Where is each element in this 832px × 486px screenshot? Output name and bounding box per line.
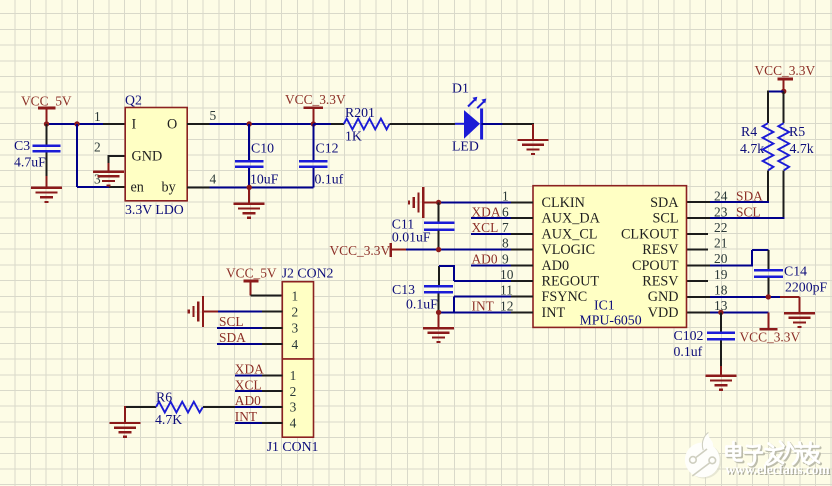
LED D1 — [455, 97, 486, 140]
svg-text:2200pF: 2200pF — [785, 280, 827, 295]
svg-text:4.7K: 4.7K — [155, 412, 182, 427]
value label C102 0.1uf — [674, 328, 704, 359]
svg-text:3: 3 — [290, 400, 297, 415]
capacitor C11 — [424, 203, 455, 250]
value label C14 2200pF — [784, 264, 827, 295]
svg-text:1K: 1K — [345, 129, 362, 144]
power port VCC_5V — [21, 94, 72, 125]
ground below C10 — [234, 187, 265, 217]
svg-text:R6: R6 — [156, 389, 172, 404]
ground right of C14 — [784, 313, 815, 327]
svg-text:1: 1 — [502, 189, 509, 204]
wire LED to ground — [482, 124, 534, 140]
power port VCC_3.3V top right — [755, 63, 816, 91]
ground below C13 — [423, 312, 454, 342]
wire AUX_CL pin7 / label XCL — [471, 220, 533, 235]
node junction C13 bottom — [436, 310, 441, 315]
svg-text:Q2: Q2 — [125, 93, 142, 108]
svg-text:SCL: SCL — [652, 211, 678, 227]
wire VLOGIC pin8 — [406, 249, 533, 251]
wire en branch down to Q2 pin3 — [77, 124, 125, 187]
resistor R201 — [313, 119, 455, 130]
ground right of D1 — [518, 140, 549, 154]
wire J2 pin1 — [251, 295, 283, 297]
wire J1 pin2 / label XCL — [235, 377, 282, 392]
wire INT pin12 / label INT — [439, 299, 533, 314]
svg-text:0.1uf: 0.1uf — [674, 344, 703, 359]
svg-text:J1 CON1: J1 CON1 — [267, 439, 319, 454]
wire R4 branch — [768, 90, 784, 123]
value label C12 0.1uf — [315, 141, 344, 187]
svg-text:R201: R201 — [345, 105, 375, 120]
svg-text:R4: R4 — [741, 124, 757, 139]
wire AUX_DA pin6 / label XDA — [471, 205, 533, 220]
svg-text:24: 24 — [714, 189, 728, 204]
svg-text:7: 7 — [502, 220, 509, 235]
svg-text:IC1: IC1 — [594, 298, 615, 313]
svg-text:21: 21 — [714, 236, 727, 251]
pin lead 21 — [687, 249, 708, 251]
svg-text:5: 5 — [210, 108, 217, 123]
svg-text:3: 3 — [94, 172, 101, 187]
node junction at en branch — [74, 121, 79, 126]
svg-text:11: 11 — [500, 283, 513, 298]
designator R5 4.7k — [789, 124, 814, 156]
svg-text:VCC_3.3V: VCC_3.3V — [755, 63, 816, 78]
svg-text:23: 23 — [714, 205, 728, 220]
svg-text:19: 19 — [714, 267, 728, 282]
node junction at R4/R5 top — [781, 89, 786, 94]
svg-text:VCC_3.3V: VCC_3.3V — [740, 330, 801, 345]
wire J2 pin4 / label SDA — [217, 330, 282, 345]
wire SCL net pin23 — [687, 217, 785, 219]
node junction at C10 top — [247, 121, 252, 126]
svg-text:REGOUT: REGOUT — [542, 274, 600, 290]
pin lead Q2 GND pin 2 — [108, 155, 125, 171]
svg-text:2: 2 — [290, 384, 297, 399]
svg-text:AD0: AD0 — [235, 393, 261, 408]
svg-text:VDD: VDD — [648, 305, 679, 321]
watermark logo elecfans — [685, 432, 722, 478]
svg-text:VCC_3.3V: VCC_3.3V — [285, 92, 346, 107]
capacitor C10 — [235, 124, 264, 187]
svg-text:www.elecfans.com: www.elecfans.com — [726, 462, 830, 477]
node junction at C10 bottom — [247, 185, 252, 190]
wire J2 pin2 — [218, 311, 282, 313]
pin lead 19 — [687, 280, 708, 282]
svg-text:10uF: 10uF — [250, 172, 279, 187]
svg-text:LED: LED — [452, 139, 479, 154]
node junction C102 top — [718, 310, 723, 315]
value label C13 0.1uF — [392, 282, 438, 312]
pin numbers J2 1-4 — [292, 288, 299, 352]
svg-text:1: 1 — [290, 368, 297, 383]
svg-text:2: 2 — [94, 140, 101, 155]
svg-text:C14: C14 — [784, 264, 807, 279]
capacitor C3 — [32, 124, 60, 176]
power port VCC_5V at J2 — [226, 266, 277, 296]
ground below C3 — [31, 176, 62, 202]
wire J1 pin1 / label XDA — [235, 362, 282, 377]
wire FSYNC pin11 link — [454, 297, 533, 313]
svg-text:R5: R5 — [789, 124, 805, 139]
wire VDD pin13 — [687, 311, 769, 313]
svg-text:0.1uF: 0.1uF — [406, 297, 438, 312]
node junction C11 top — [436, 200, 441, 205]
node junction at C3 top — [44, 121, 49, 126]
svg-text:4.7uF: 4.7uF — [14, 155, 46, 170]
svg-text:SCL: SCL — [736, 205, 761, 220]
svg-text:0.1uf: 0.1uf — [315, 172, 344, 187]
svg-text:12: 12 — [500, 299, 513, 314]
pin numbers J1 1-4 — [290, 368, 297, 430]
svg-text:INT: INT — [472, 299, 494, 314]
wire Q2 pin4 bottom rail — [187, 186, 313, 188]
IC U1 IC1 MPU-6050 body — [533, 186, 687, 328]
svg-text:2: 2 — [292, 305, 299, 320]
wire GND pin18 — [687, 297, 799, 313]
svg-text:J2 CON2: J2 CON2 — [282, 266, 334, 281]
value label C11 0.01uF — [392, 217, 431, 245]
svg-text:C12: C12 — [316, 141, 339, 156]
svg-text:D1: D1 — [452, 81, 469, 96]
designator R6 4.7K — [155, 389, 182, 427]
svg-text:VCC_5V: VCC_5V — [226, 266, 277, 281]
svg-text:AUX_DA: AUX_DA — [542, 211, 601, 227]
svg-text:8: 8 — [502, 236, 509, 251]
value label R201 1K — [345, 105, 375, 144]
pin lead 22 — [687, 233, 708, 235]
connector J1 body — [282, 359, 313, 437]
svg-text:C13: C13 — [392, 282, 415, 297]
wire SDA net pin24 — [687, 201, 769, 203]
wire Q2 pin5 output rail — [187, 123, 313, 125]
svg-text:SCL: SCL — [219, 314, 244, 329]
ground left of R6 — [110, 406, 141, 437]
node junction at C12 top — [311, 121, 316, 126]
capacitor C14 — [754, 270, 783, 297]
svg-text:INT: INT — [235, 409, 257, 424]
designator R4 4.7k — [740, 124, 764, 156]
svg-text:C102: C102 — [674, 328, 704, 343]
watermark url www.elecfans.com — [726, 462, 831, 478]
svg-text:20: 20 — [714, 251, 728, 266]
svg-text:4: 4 — [292, 337, 299, 352]
svg-text:CLKOUT: CLKOUT — [621, 226, 679, 242]
svg-text:O: O — [167, 117, 177, 133]
svg-text:INT: INT — [542, 305, 566, 321]
resistor R6 — [125, 402, 235, 413]
svg-text:SDA: SDA — [736, 189, 763, 204]
svg-text:C10: C10 — [251, 141, 274, 156]
capacitor C102 — [707, 312, 735, 375]
svg-text:3: 3 — [292, 321, 299, 336]
value label C3 4.7uF — [14, 138, 46, 170]
power port VCC_3.3V down at VDD — [740, 312, 801, 344]
svg-text:MPU-6050: MPU-6050 — [580, 313, 642, 328]
svg-text:6: 6 — [502, 205, 509, 220]
svg-text:4: 4 — [290, 415, 297, 430]
wire AD0 pin9 / label AD0 — [471, 252, 533, 267]
svg-text:XCL: XCL — [235, 377, 262, 392]
svg-text:10: 10 — [500, 267, 514, 282]
pin number 24 / label SDA — [714, 189, 763, 204]
svg-text:4: 4 — [210, 172, 217, 187]
svg-text:XDA: XDA — [235, 362, 264, 377]
power port VCC_3.3V at VLOGIC — [330, 243, 407, 258]
power port VCC_3.3V top — [285, 92, 346, 124]
resistor R5 — [778, 91, 789, 218]
svg-text:AD0: AD0 — [472, 252, 498, 267]
svg-text:I: I — [132, 117, 137, 133]
ground below C102 — [705, 376, 736, 390]
svg-text:SDA: SDA — [650, 195, 679, 211]
capacitor C12 — [299, 124, 327, 187]
svg-text:VLOGIC: VLOGIC — [542, 242, 596, 258]
svg-text:1: 1 — [292, 288, 299, 303]
svg-text:18: 18 — [714, 283, 728, 298]
pin number 23 / label SCL — [714, 205, 761, 220]
regulator U Q2 body — [125, 108, 187, 201]
svg-text:CPOUT: CPOUT — [632, 258, 679, 274]
wire CPOUT pin20 to C14 — [687, 250, 768, 269]
wire J2 pin3 / label SCL — [217, 314, 282, 329]
svg-text:RESV: RESV — [642, 242, 679, 258]
svg-text:3.3V LDO: 3.3V LDO — [125, 202, 184, 217]
svg-text:VCC_5V: VCC_5V — [21, 94, 72, 109]
svg-text:0.01uF: 0.01uF — [392, 230, 431, 245]
wire C13 to REGOUT pin10 — [439, 265, 533, 285]
svg-text:en: en — [131, 180, 144, 196]
resistor R4 — [763, 123, 774, 202]
svg-text:RESV: RESV — [642, 274, 679, 290]
svg-text:9: 9 — [502, 252, 509, 267]
svg-text:1: 1 — [94, 109, 101, 124]
svg-text:C3: C3 — [14, 138, 30, 153]
svg-text:GND: GND — [648, 289, 679, 305]
node junction C11 bottom — [436, 247, 441, 252]
capacitor C13 — [424, 286, 453, 312]
svg-text:VCC_3.3V: VCC_3.3V — [330, 243, 391, 258]
svg-text:FSYNC: FSYNC — [542, 289, 588, 305]
svg-text:SDA: SDA — [219, 330, 246, 345]
node junction C14 bottom — [766, 294, 771, 299]
wire VCC_5V to Q2 pin1 — [47, 123, 126, 125]
wire CLKIN pin1 — [439, 202, 533, 204]
svg-text:4.7k: 4.7k — [790, 141, 814, 156]
value label C10 10uF — [250, 141, 279, 187]
svg-text:4.7k: 4.7k — [740, 141, 764, 156]
wire J1 pin3 / label AD0 — [235, 393, 282, 408]
svg-text:by: by — [162, 180, 177, 196]
svg-text:AUX_CL: AUX_CL — [542, 226, 598, 242]
svg-text:XCL: XCL — [472, 220, 499, 235]
connector J2 body — [282, 282, 313, 359]
svg-text:22: 22 — [714, 220, 727, 235]
wire J1 pin4 / label INT — [235, 409, 282, 424]
svg-text:GND: GND — [132, 149, 163, 165]
svg-text:AD0: AD0 — [542, 258, 570, 274]
ground left of J2 pin2 rotated — [189, 296, 218, 327]
ground at Q2 GND pin — [93, 172, 124, 186]
ground left of pin1 rotated — [409, 187, 439, 218]
svg-text:CLKIN: CLKIN — [542, 195, 585, 211]
svg-text:XDA: XDA — [472, 205, 501, 220]
